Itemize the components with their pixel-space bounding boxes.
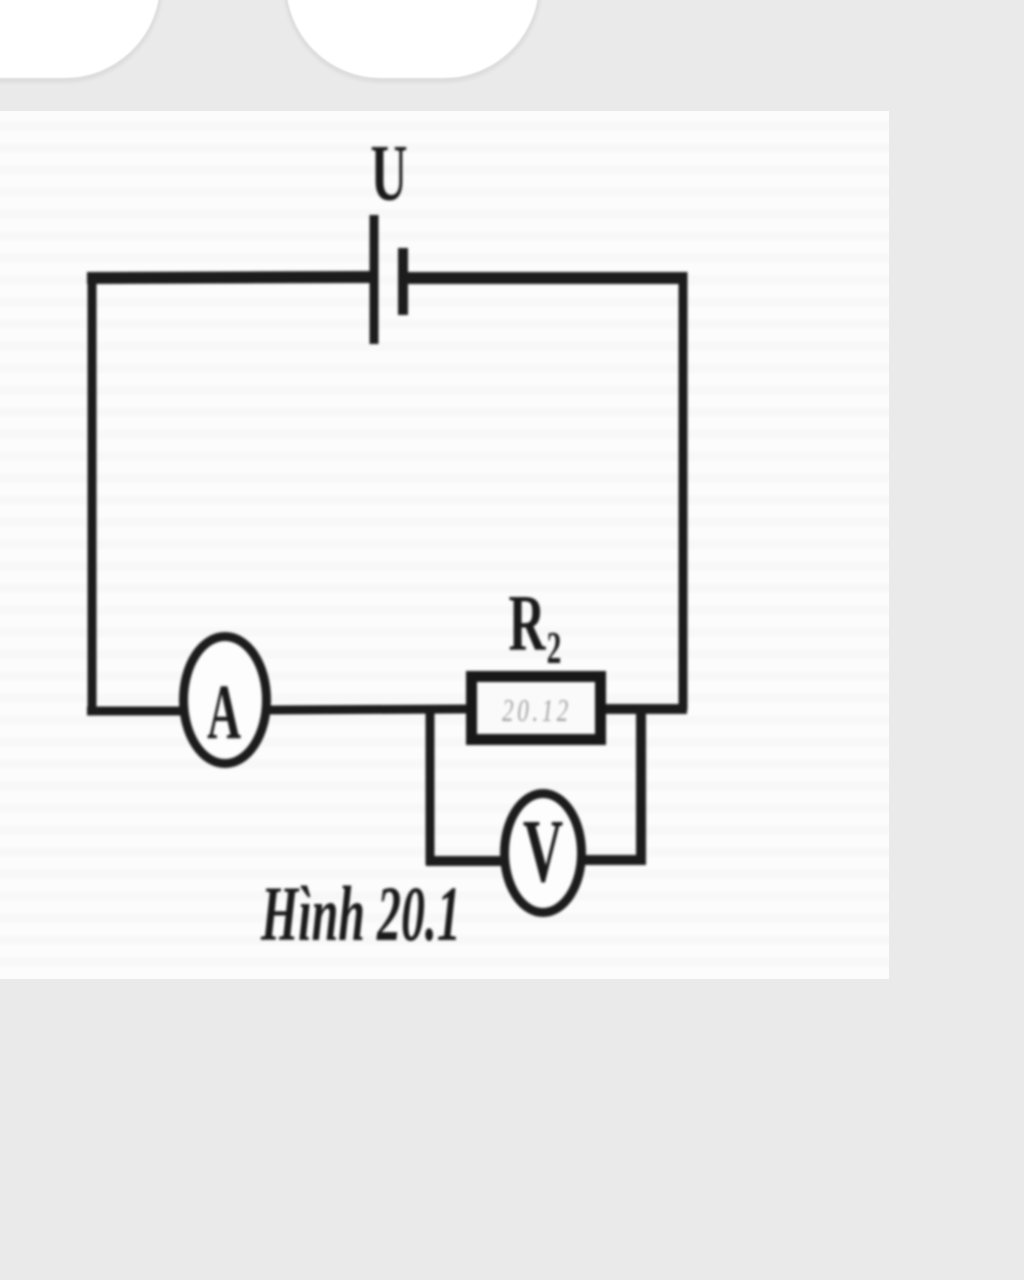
ammeter A bbox=[184, 637, 267, 764]
wire top-right horizontal bbox=[401, 272, 686, 284]
wire voltmeter bottom-left horizontal bbox=[426, 856, 504, 866]
svg-text:Hình 20.1: Hình 20.1 bbox=[260, 871, 461, 958]
voltmeter V bbox=[505, 794, 582, 913]
wire right vertical bbox=[679, 272, 688, 710]
svg-text:V: V bbox=[523, 802, 563, 902]
svg-text:A: A bbox=[207, 669, 241, 755]
svg-text:20.12: 20.12 bbox=[502, 693, 572, 729]
resistor R2 box bbox=[472, 677, 601, 740]
wire bottom left segment bbox=[87, 707, 183, 716]
svg-text:R: R bbox=[509, 579, 547, 668]
svg-text:2: 2 bbox=[547, 624, 562, 674]
wire voltmeter bottom-right horizontal bbox=[583, 855, 646, 865]
battery U long plate bbox=[370, 215, 379, 344]
wire resistor to right vertical bbox=[606, 704, 687, 714]
wire voltmeter branch left vertical bbox=[426, 705, 435, 865]
wire left vertical bbox=[88, 272, 97, 712]
wire top-left horizontal bbox=[87, 277, 376, 278]
decorative bubble center bbox=[284, 0, 541, 80]
battery U short plate bbox=[398, 248, 408, 315]
white content panel bbox=[0, 111, 889, 979]
svg-text:U: U bbox=[371, 129, 408, 218]
wire voltmeter branch right vertical bbox=[636, 704, 646, 864]
decorative bubble left bbox=[0, 0, 162, 80]
wire ammeter to resistor bbox=[268, 709, 466, 710]
